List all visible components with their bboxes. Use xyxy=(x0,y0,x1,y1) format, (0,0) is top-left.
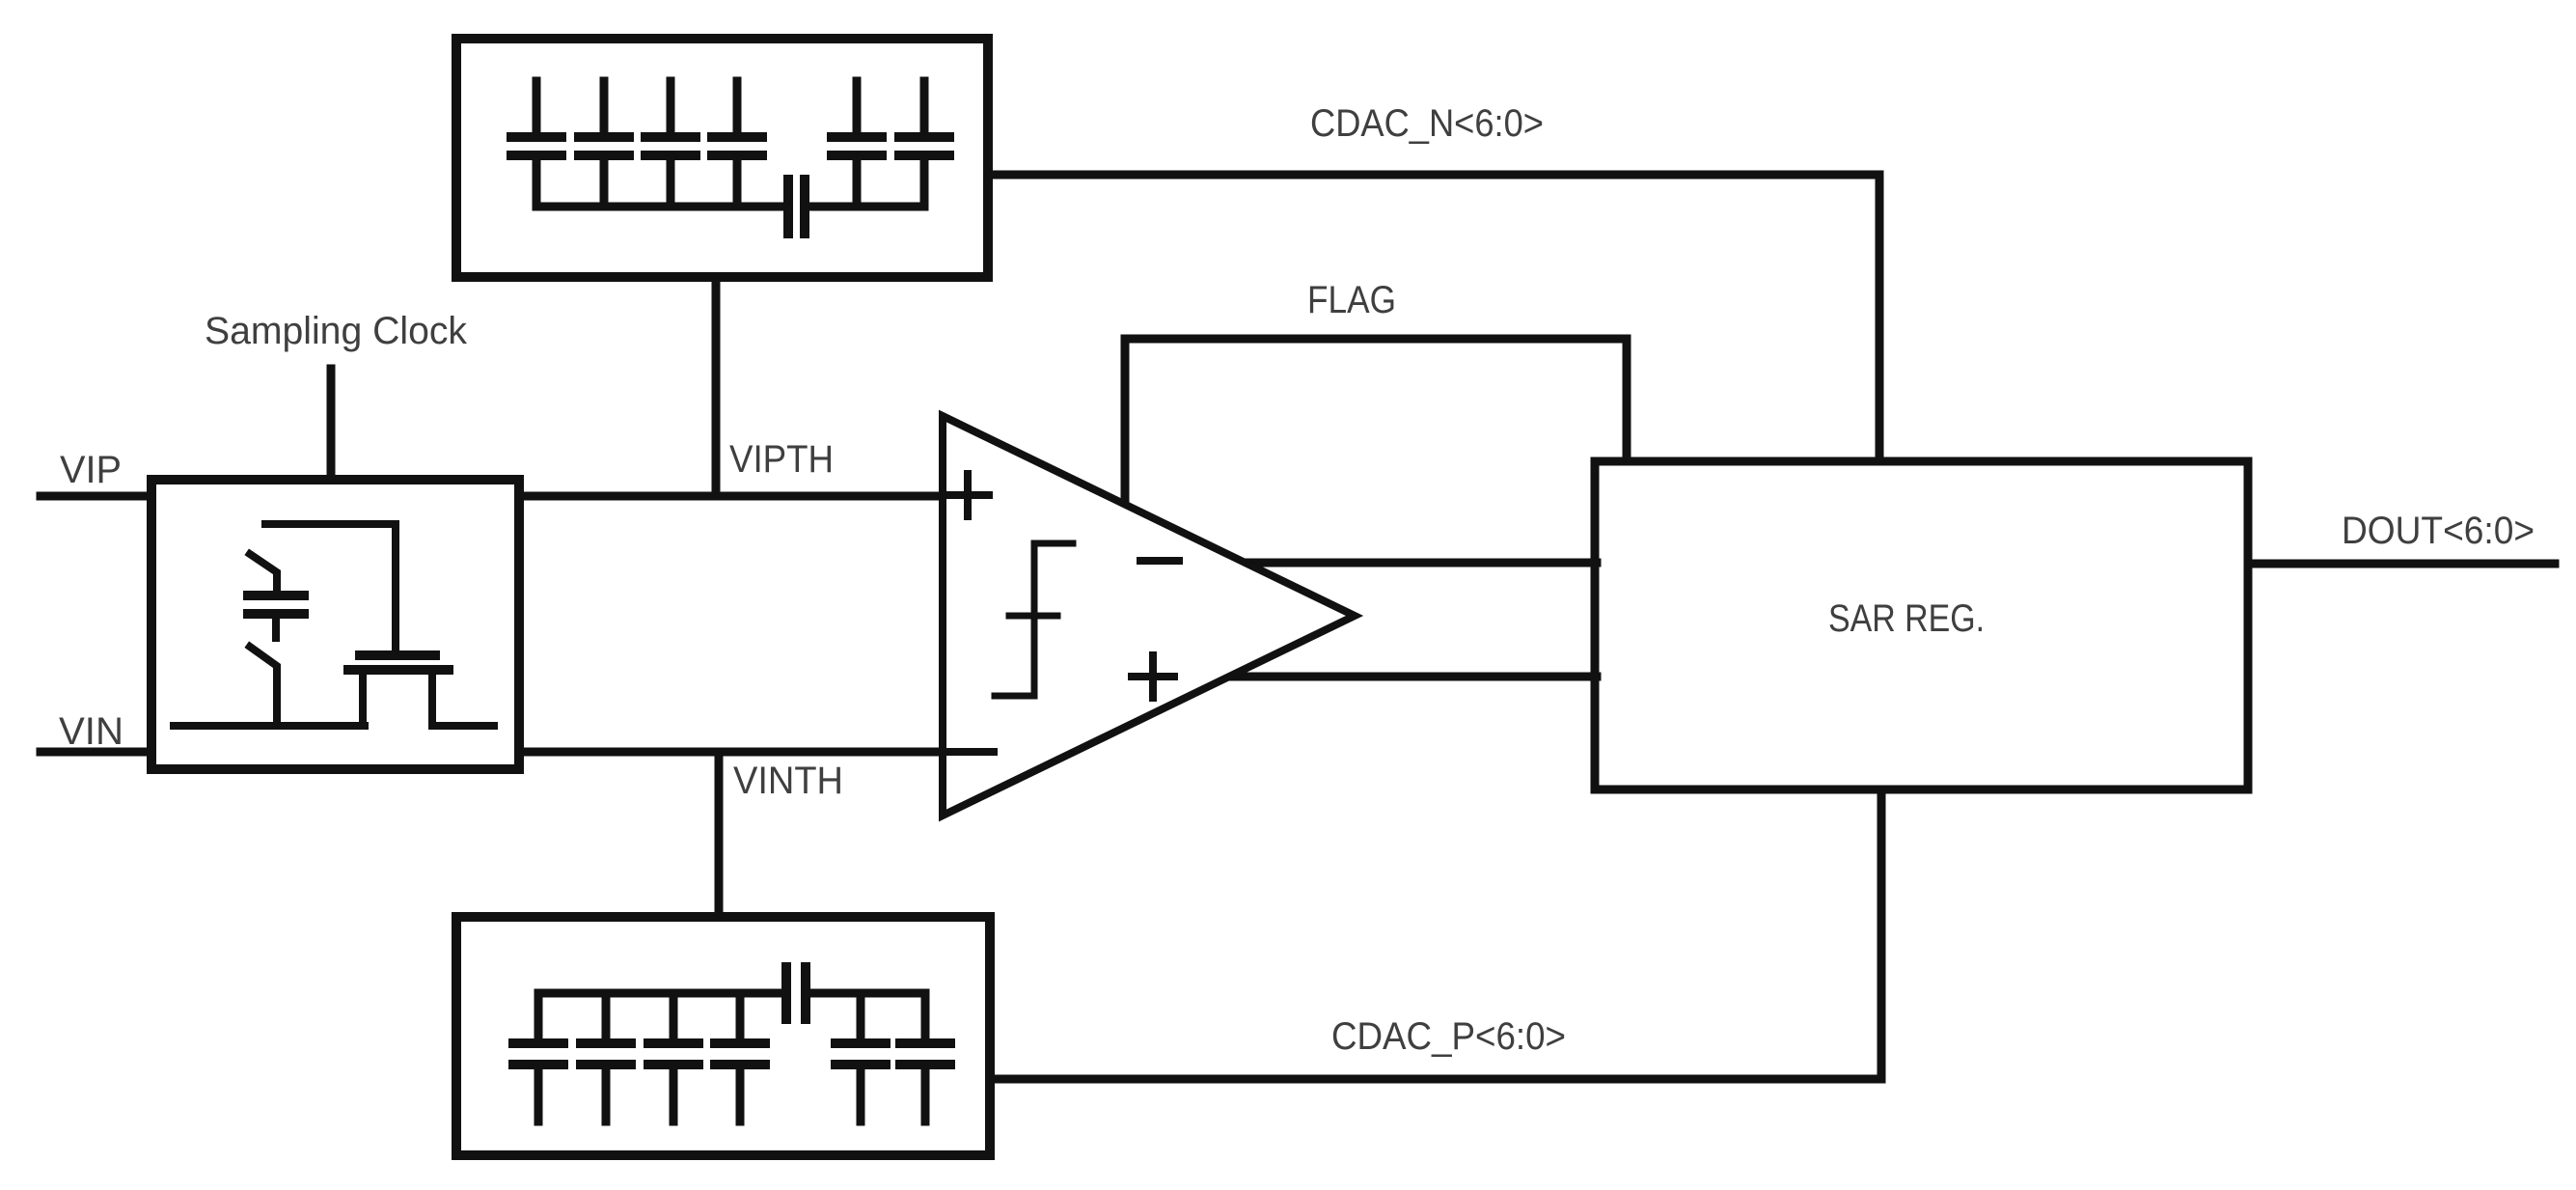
svg-text:VINTH: VINTH xyxy=(733,760,843,802)
svg-text:CDAC_P<6:0>: CDAC_P<6:0> xyxy=(1331,1015,1566,1058)
svg-text:SAR REG.: SAR REG. xyxy=(1828,597,1985,640)
svg-text:Sampling Clock: Sampling Clock xyxy=(205,310,468,352)
svg-text:VIP: VIP xyxy=(60,449,122,491)
svg-text:DOUT<6:0>: DOUT<6:0> xyxy=(2342,510,2535,552)
svg-text:FLAG: FLAG xyxy=(1307,279,1396,321)
svg-text:CDAC_N<6:0>: CDAC_N<6:0> xyxy=(1310,102,1544,145)
svg-text:VIPTH: VIPTH xyxy=(729,438,834,481)
svg-text:VIN: VIN xyxy=(59,710,123,753)
